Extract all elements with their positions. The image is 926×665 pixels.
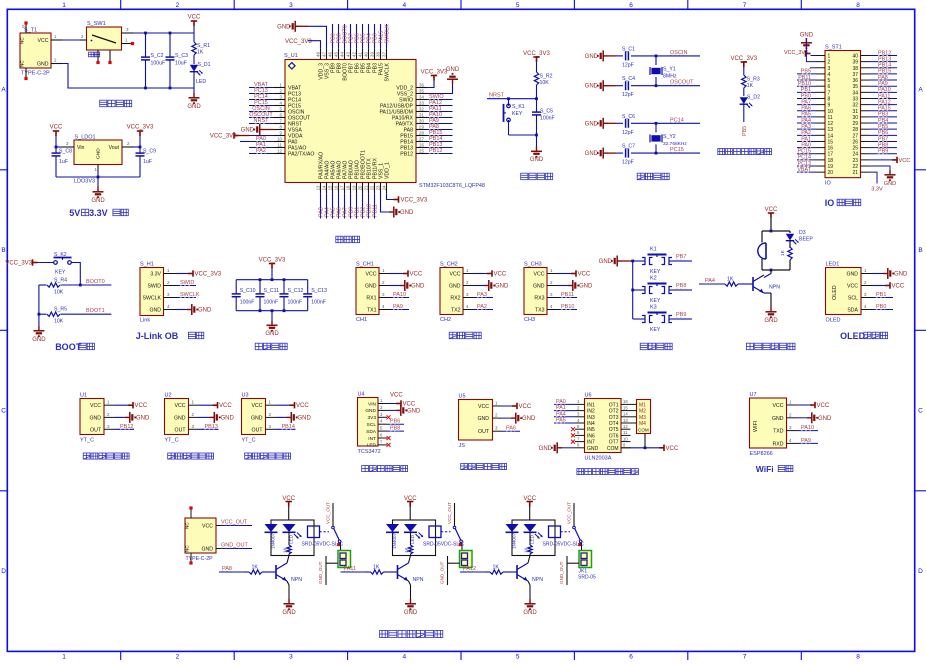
svg-text:3: 3	[289, 2, 293, 9]
svg-text:KEY: KEY	[650, 327, 661, 333]
svg-text:GND: GND	[599, 259, 613, 265]
svg-text:GND: GND	[585, 121, 599, 127]
relay switch contact	[332, 526, 335, 529]
svg-text:29: 29	[852, 121, 858, 127]
svg-text:29: 29	[419, 125, 424, 130]
keys left bus wire	[632, 261, 634, 319]
caption 晶振电路	[637, 173, 644, 180]
svg-text:VCC: VCC	[366, 272, 377, 278]
connector T1 pin names	[20, 37, 49, 68]
svg-text:OLED: OLED	[826, 318, 841, 324]
key S_K1	[508, 99, 510, 106]
U2 VCC power port	[199, 404, 213, 406]
svg-text:1: 1	[828, 54, 831, 60]
relay base resistor 1K	[244, 571, 249, 573]
junction dots on VCC rail	[144, 32, 147, 35]
relay body rectangle	[271, 520, 314, 556]
svg-text:12pF: 12pF	[622, 92, 634, 98]
svg-text:VCC_3V3: VCC_3V3	[210, 134, 237, 140]
svg-text:VCC: VCC	[410, 272, 423, 278]
svg-text:100uF: 100uF	[151, 61, 166, 67]
svg-text:PA12: PA12	[878, 99, 891, 105]
svg-text:IN1: IN1	[587, 402, 595, 408]
U5 VCC power port	[502, 405, 512, 407]
net label BOOT1	[86, 312, 101, 314]
H1 pin2 net SWID	[176, 285, 196, 287]
svg-text:17: 17	[828, 152, 834, 158]
svg-text:GND: GND	[32, 337, 46, 343]
svg-text:22: 22	[370, 185, 375, 190]
svg-text:100nF: 100nF	[264, 300, 279, 306]
U7 GND symbol	[797, 417, 807, 419]
relay switch common wire VCC_OUT	[332, 503, 334, 526]
module U4 body	[358, 398, 379, 447]
svg-text:13: 13	[623, 418, 628, 423]
svg-text:S_K2: S_K2	[54, 252, 67, 258]
svg-text:PB5: PB5	[742, 126, 748, 136]
svg-text:PC14: PC14	[670, 117, 684, 123]
svg-text:IO: IO	[825, 198, 835, 208]
U4 SCL net PB6	[387, 423, 404, 425]
zone numbers top	[62, 2, 860, 9]
svg-text:PA8: PA8	[222, 566, 232, 572]
svg-text:GND: GND	[198, 308, 212, 314]
svg-text:25: 25	[419, 149, 424, 154]
svg-text:PB10: PB10	[798, 81, 811, 87]
svg-text:M2: M2	[639, 409, 646, 415]
relay coil box	[549, 526, 561, 538]
svg-text:TXD: TXD	[773, 429, 784, 435]
relay actuation dashed line	[561, 531, 571, 533]
svg-text:PC14: PC14	[798, 155, 812, 161]
svg-text:PA2: PA2	[477, 304, 487, 310]
svg-text:VCC_OUT: VCC_OUT	[221, 520, 248, 526]
svg-text:VCC: VCC	[847, 284, 858, 290]
module U7 body	[750, 398, 787, 448]
svg-text:J-Link OB: J-Link OB	[136, 331, 179, 341]
CH1 RX net	[389, 297, 409, 299]
svg-text:GND: GND	[772, 416, 784, 422]
svg-text:LED: LED	[196, 79, 206, 85]
key K3 net PB9	[676, 316, 685, 318]
svg-text:S_C9: S_C9	[143, 149, 156, 155]
svg-text:K2: K2	[650, 276, 657, 282]
svg-text:PB9: PB9	[878, 149, 888, 155]
svg-text:VCC: VCC	[175, 403, 186, 409]
svg-text:VCC: VCC	[252, 403, 263, 409]
svg-text:SCL: SCL	[848, 296, 858, 302]
switch S_SW1 pin 1 right bottom	[122, 43, 132, 45]
svg-text:D3: D3	[799, 230, 806, 236]
connector J1 pin names	[185, 522, 214, 553]
U2 OUT net PB13	[199, 428, 219, 430]
svg-text:LED: LED	[367, 443, 377, 449]
svg-text:PA0: PA0	[801, 142, 811, 148]
svg-text:VCC_3V3: VCC_3V3	[730, 56, 757, 62]
connector S_ST1 inner pin names	[828, 54, 859, 177]
U1 VCC power port	[114, 404, 128, 406]
capacitor S_C9	[139, 147, 141, 153]
relay LED series resistor 1K	[287, 545, 291, 554]
svg-text:RXD: RXD	[773, 441, 784, 447]
relay GND_OUT wire	[447, 556, 449, 585]
svg-text:PB1: PB1	[876, 292, 886, 298]
svg-text:VCC_OUT: VCC_OUT	[447, 502, 452, 524]
svg-text:S_C5: S_C5	[540, 109, 553, 115]
svg-text:PA12: PA12	[463, 566, 476, 572]
relay emitter wire	[409, 581, 411, 585]
svg-text:S_C13: S_C13	[311, 288, 327, 294]
svg-text:PA4: PA4	[705, 278, 715, 284]
svg-text:RX3: RX3	[534, 296, 544, 302]
U4 INT no-connect cross	[387, 436, 391, 440]
svg-text:GND_OUT: GND_OUT	[559, 561, 564, 584]
svg-text:2: 2	[828, 60, 831, 66]
svg-text:10uF: 10uF	[175, 61, 187, 67]
relay base resistor 1K	[485, 571, 490, 573]
wire T1 GND to bottom rail	[62, 64, 194, 89]
switch S_SW1 body	[87, 27, 122, 50]
svg-text:GND: GND	[265, 331, 279, 337]
svg-text:GND_OUT: GND_OUT	[440, 561, 445, 584]
svg-text:CH2: CH2	[440, 317, 451, 323]
svg-text:17: 17	[340, 185, 345, 190]
resistor S_R3	[742, 75, 746, 88]
svg-text:COM: COM	[607, 446, 619, 452]
svg-text:4: 4	[402, 654, 406, 660]
svg-text:PA8: PA8	[878, 75, 888, 81]
svg-text:10: 10	[623, 436, 628, 441]
svg-text:D: D	[1, 568, 6, 575]
svg-text:TCS3472: TCS3472	[358, 449, 381, 455]
U1 GND symbol	[114, 416, 125, 418]
svg-text:S_C6: S_C6	[622, 114, 635, 120]
svg-text:PA3: PA3	[477, 292, 487, 298]
svg-text:40: 40	[364, 52, 369, 57]
buzzer B1	[761, 231, 763, 243]
alarm base resistor 1K	[699, 283, 725, 285]
svg-text:KEY: KEY	[512, 111, 523, 117]
svg-text:VCC: VCC	[765, 207, 778, 213]
svg-text:S_CH2: S_CH2	[440, 262, 458, 268]
crystal S_Y1 8MHz	[655, 56, 657, 65]
svg-text:7: 7	[828, 90, 831, 96]
svg-text:IN3: IN3	[587, 415, 595, 421]
svg-text:SRD-05VDC-SL-C: SRD-05VDC-SL-C	[302, 542, 344, 548]
svg-text:GND: GND	[187, 104, 201, 110]
svg-text:31: 31	[852, 109, 858, 115]
connector T1 pin 2 GND	[51, 63, 62, 65]
U7 VCC power port	[797, 404, 810, 406]
svg-text:JS: JS	[459, 443, 466, 449]
svg-text:LED: LED	[530, 534, 535, 544]
capacitor S_C2	[141, 57, 150, 60]
svg-text:SWCLK: SWCLK	[384, 24, 390, 44]
svg-text:GND: GND	[365, 408, 376, 414]
svg-text:GND: GND	[221, 415, 235, 421]
caption 按键电路	[640, 343, 647, 350]
svg-text:VCC: VCC	[494, 272, 507, 278]
svg-text:2: 2	[176, 654, 180, 660]
svg-text:22: 22	[852, 164, 858, 170]
svg-text:NRST: NRST	[254, 118, 270, 124]
svg-text:GND: GND	[136, 415, 150, 421]
svg-text:PB12: PB12	[120, 424, 133, 430]
svg-text:33: 33	[852, 96, 858, 102]
svg-text:VCC: VCC	[666, 446, 679, 452]
svg-text:OUT: OUT	[252, 427, 264, 433]
connector J1 bottom pin	[190, 553, 192, 562]
svg-text:PB8: PB8	[676, 283, 686, 289]
U1 OUT net PB12	[114, 428, 134, 430]
alarm bottom rail to collector	[762, 269, 790, 271]
svg-text:COM: COM	[638, 428, 649, 433]
transistor Q1 NPN alarm	[753, 275, 764, 293]
module U3 body	[242, 399, 266, 435]
svg-text:13: 13	[316, 185, 321, 190]
svg-text:ULN2003A: ULN2003A	[585, 456, 612, 462]
LDO pin 2 right	[122, 146, 134, 148]
svg-text:2: 2	[176, 2, 180, 9]
relay coil box	[308, 526, 320, 538]
switch S_SW1 pin 3 right top	[122, 32, 134, 34]
ground symbol reset	[536, 135, 538, 147]
relay coil box	[429, 526, 441, 538]
svg-text:NRST: NRST	[489, 93, 505, 99]
module U4 pin names	[365, 401, 376, 448]
svg-text:GND: GND	[585, 84, 599, 90]
svg-text:S_Y1: S_Y1	[663, 67, 676, 73]
svg-text:VIN: VIN	[368, 401, 377, 407]
CH3 VCC power port	[557, 273, 571, 275]
caption 主芯片	[336, 236, 343, 243]
header S_H1 pin names	[143, 272, 162, 314]
capacitor S_C3	[166, 57, 175, 60]
svg-text:Vin: Vin	[77, 145, 85, 151]
svg-text:RX1: RX1	[366, 296, 376, 302]
relay base resistor 1K	[366, 571, 371, 573]
serial module S_CH2 body	[440, 268, 463, 315]
H1 pin1 VCC_3V3 power port	[176, 273, 188, 275]
svg-text:PB6: PB6	[878, 130, 888, 136]
svg-text:BOOT: BOOT	[55, 342, 82, 352]
svg-text:IN2: IN2	[587, 409, 595, 415]
svg-text:12: 12	[623, 424, 628, 429]
caption 程序运行指示灯	[718, 149, 725, 155]
connector T1 bottom pin	[25, 68, 27, 77]
key K3	[633, 318, 645, 320]
MCU VDD_1 wire to VCC_3V3	[387, 193, 394, 199]
caption 液体触发模块 second	[168, 453, 175, 459]
svg-text:IN6: IN6	[587, 433, 595, 439]
wire LDO left to cap C8	[56, 146, 62, 148]
svg-text:12pF: 12pF	[622, 62, 634, 68]
module U4 pins	[378, 398, 387, 445]
reset bottom rail	[509, 134, 537, 136]
svg-text:GND: GND	[149, 308, 161, 314]
svg-text:VCC: VCC	[578, 272, 591, 278]
U6 IN5-IN7 no-connect crosses	[571, 427, 575, 431]
serial module CH2 pins	[463, 268, 473, 310]
OLED SCL net PB1	[872, 297, 893, 299]
svg-text:48: 48	[316, 52, 321, 57]
zone letters left	[1, 87, 6, 576]
svg-text:GND: GND	[446, 67, 460, 73]
svg-text:VCC_3V3: VCC_3V3	[259, 258, 286, 264]
svg-text:S_C8: S_C8	[59, 149, 72, 155]
CH2 VCC power port	[473, 273, 487, 275]
U3 OUT net PB14	[276, 428, 296, 430]
svg-text:U1: U1	[80, 393, 87, 399]
svg-text:VCC_3V3: VCC_3V3	[401, 198, 428, 204]
svg-text:PA3: PA3	[801, 124, 811, 130]
relay GND_OUT wire	[325, 556, 327, 585]
svg-text:VCC: VCC	[519, 404, 532, 410]
U5 GND symbol	[502, 417, 511, 419]
svg-text:6: 6	[629, 2, 633, 9]
svg-text:NC: NC	[20, 37, 25, 44]
relay switch common wire VCC_OUT	[573, 503, 575, 526]
U4 LED no-connect cross	[387, 443, 391, 447]
svg-text:PB8: PB8	[878, 142, 888, 148]
OLED GND symbol	[872, 273, 883, 275]
svg-text:10: 10	[277, 137, 282, 142]
svg-text:IN7: IN7	[587, 440, 595, 446]
svg-text:PA1: PA1	[556, 405, 566, 411]
svg-text:PA9: PA9	[878, 81, 888, 87]
svg-text:4: 4	[828, 72, 831, 78]
svg-text:VCC: VCC	[219, 403, 232, 409]
svg-text:5V: 5V	[69, 208, 80, 218]
svg-text:BOOT0: BOOT0	[86, 279, 105, 285]
svg-text:C: C	[1, 408, 6, 415]
U4 GND symbol	[387, 409, 396, 411]
svg-text:30: 30	[852, 115, 858, 121]
module U2 pins	[189, 400, 199, 430]
svg-text:S_U1: S_U1	[284, 53, 298, 59]
svg-text:3: 3	[828, 66, 831, 72]
caption 滤波电路	[255, 343, 262, 350]
svg-text:S_C7: S_C7	[622, 144, 635, 150]
module U2 body	[165, 399, 189, 435]
svg-text:PB0: PB0	[876, 304, 886, 310]
svg-text:SWCLK: SWCLK	[385, 62, 391, 81]
svg-text:VCC_OUT: VCC_OUT	[567, 502, 572, 524]
svg-text:PC15: PC15	[670, 147, 684, 153]
svg-text:RX2: RX2	[450, 296, 460, 302]
svg-text:40: 40	[852, 54, 858, 60]
svg-text:PB11: PB11	[561, 292, 574, 298]
caption 红外计数模块	[461, 464, 468, 470]
svg-text:IN5: IN5	[587, 427, 595, 433]
U6 COM wire to VCC	[621, 447, 631, 449]
svg-text:NPN: NPN	[769, 285, 780, 291]
display pins	[861, 268, 872, 310]
capacitor S_C5	[536, 99, 538, 112]
svg-text:GND: GND	[800, 33, 814, 39]
relay base net PA12	[463, 570, 475, 572]
LED D3 BEEP	[789, 231, 791, 233]
svg-text:16: 16	[334, 185, 339, 190]
svg-text:VCC_OUT: VCC_OUT	[326, 502, 331, 524]
svg-text:3.3V: 3.3V	[871, 187, 883, 193]
CH1 GND symbol	[389, 285, 400, 287]
motor connector wires from OT1-OT4	[631, 404, 637, 423]
MCU S_U1 body STM32	[285, 60, 416, 183]
svg-text:VCC_3V3: VCC_3V3	[523, 51, 550, 57]
svg-text:10: 10	[828, 109, 834, 115]
svg-text:KEY: KEY	[650, 269, 661, 275]
svg-text:1K: 1K	[404, 546, 409, 553]
svg-text:PA2: PA2	[256, 148, 266, 154]
switch S_SW1 lever graphic	[92, 35, 116, 43]
svg-text:PA9: PA9	[801, 438, 811, 444]
svg-text:PB5: PB5	[801, 69, 811, 75]
resistor S_R4	[39, 284, 47, 286]
svg-text:VCC: VCC	[296, 403, 309, 409]
svg-text:ESP8266: ESP8266	[750, 451, 773, 457]
svg-text:21: 21	[364, 185, 369, 190]
svg-text:GND: GND	[89, 415, 101, 421]
svg-text:PB1: PB1	[801, 87, 811, 93]
svg-text:Link: Link	[140, 318, 150, 324]
svg-text:25: 25	[852, 146, 858, 152]
svg-text:PB15: PB15	[878, 69, 891, 75]
svg-text:GND: GND	[404, 610, 418, 616]
svg-text:12pF: 12pF	[622, 130, 634, 136]
svg-text:PA9: PA9	[393, 304, 403, 310]
svg-text:35: 35	[852, 84, 858, 90]
svg-text:VCC_3V3: VCC_3V3	[127, 125, 154, 131]
svg-text:28: 28	[852, 127, 858, 133]
svg-text:PB14: PB14	[282, 424, 295, 430]
relay switch common wire VCC_OUT	[454, 503, 456, 526]
svg-text:SWCLK: SWCLK	[143, 296, 162, 302]
svg-text:S_R5: S_R5	[54, 307, 67, 313]
svg-text:PB5: PB5	[878, 124, 888, 130]
svg-text:VCC_3V3: VCC_3V3	[5, 261, 32, 267]
svg-text:S_CH3: S_CH3	[524, 262, 542, 268]
MCU right net labels	[427, 94, 453, 154]
serial module CH1 pin names	[365, 272, 377, 314]
relay LED series resistor 1K	[408, 545, 412, 554]
svg-text:3V3: 3V3	[367, 415, 376, 421]
svg-text:VCC: VCC	[892, 284, 905, 290]
relay switch contact	[573, 526, 576, 529]
svg-text:15: 15	[828, 139, 834, 145]
svg-text:GND: GND	[251, 415, 263, 421]
ST1 pin22 wire to GND	[870, 166, 891, 170]
CH2 GND symbol	[473, 285, 484, 287]
module U3 pins	[266, 400, 276, 430]
module U5 pin names	[477, 404, 489, 435]
svg-text:1K: 1K	[780, 249, 786, 256]
svg-text:1K: 1K	[493, 565, 500, 571]
svg-text:19: 19	[352, 185, 357, 190]
svg-text:M1: M1	[639, 402, 646, 408]
svg-text:LDO3V3: LDO3V3	[74, 179, 95, 185]
caption 液体触发模块 third	[245, 453, 252, 459]
svg-text:1K: 1K	[747, 83, 754, 89]
svg-text:27: 27	[419, 137, 424, 142]
svg-text:PA10: PA10	[393, 292, 406, 298]
header S_H1 pins	[164, 268, 177, 310]
motor connector body	[637, 400, 651, 434]
relay actuation dashed line	[441, 531, 451, 533]
relay wire to output connector	[461, 543, 463, 552]
wire LDO right to cap C9	[134, 146, 140, 148]
svg-text:STM32F103C8T6_LQFP48: STM32F103C8T6_LQFP48	[419, 183, 485, 189]
